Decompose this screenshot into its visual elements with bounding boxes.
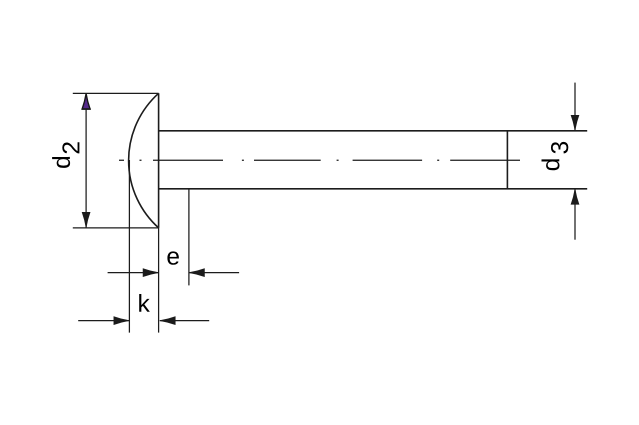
center line (dash-dot) bbox=[119, 159, 520, 161]
k right arrow bbox=[160, 317, 175, 325]
e right extension line bbox=[188, 189, 190, 286]
e dimension line left segment bbox=[108, 272, 159, 274]
shank bottom line (outline + d3 extension) bbox=[159, 188, 588, 190]
label e bbox=[167, 251, 179, 264]
label d2 bbox=[52, 157, 70, 168]
head left tangent extension line (k) bbox=[128, 160, 130, 333]
k dimension line left segment bbox=[78, 320, 129, 322]
rivet head dome arc bbox=[129, 93, 159, 228]
head top extension line (d2) bbox=[73, 92, 159, 94]
k left arrow bbox=[114, 317, 129, 325]
k dimension line right segment bbox=[160, 320, 210, 322]
head face extension line below (e,k) bbox=[158, 228, 160, 333]
head bottom extension line (d2) bbox=[73, 227, 159, 229]
d2 dimension line bbox=[85, 93, 87, 228]
d3 top arrow bbox=[571, 115, 579, 130]
e dimension line right segment bbox=[189, 272, 239, 274]
d2 top arrow (purple) bbox=[82, 94, 91, 109]
e left arrow bbox=[143, 269, 158, 277]
d3 bottom arrow bbox=[571, 189, 579, 204]
label d3 bbox=[542, 159, 560, 170]
e right arrow bbox=[189, 269, 204, 277]
label k bbox=[139, 294, 150, 312]
shank end face bbox=[506, 131, 508, 189]
d3 dimension line bottom segment bbox=[574, 189, 576, 240]
d3 dimension line top segment bbox=[574, 83, 576, 131]
rivet head flat face (right side of head) bbox=[158, 93, 160, 228]
shank top line (outline + d3 extension) bbox=[159, 130, 588, 132]
d2 bottom arrow bbox=[82, 212, 90, 227]
